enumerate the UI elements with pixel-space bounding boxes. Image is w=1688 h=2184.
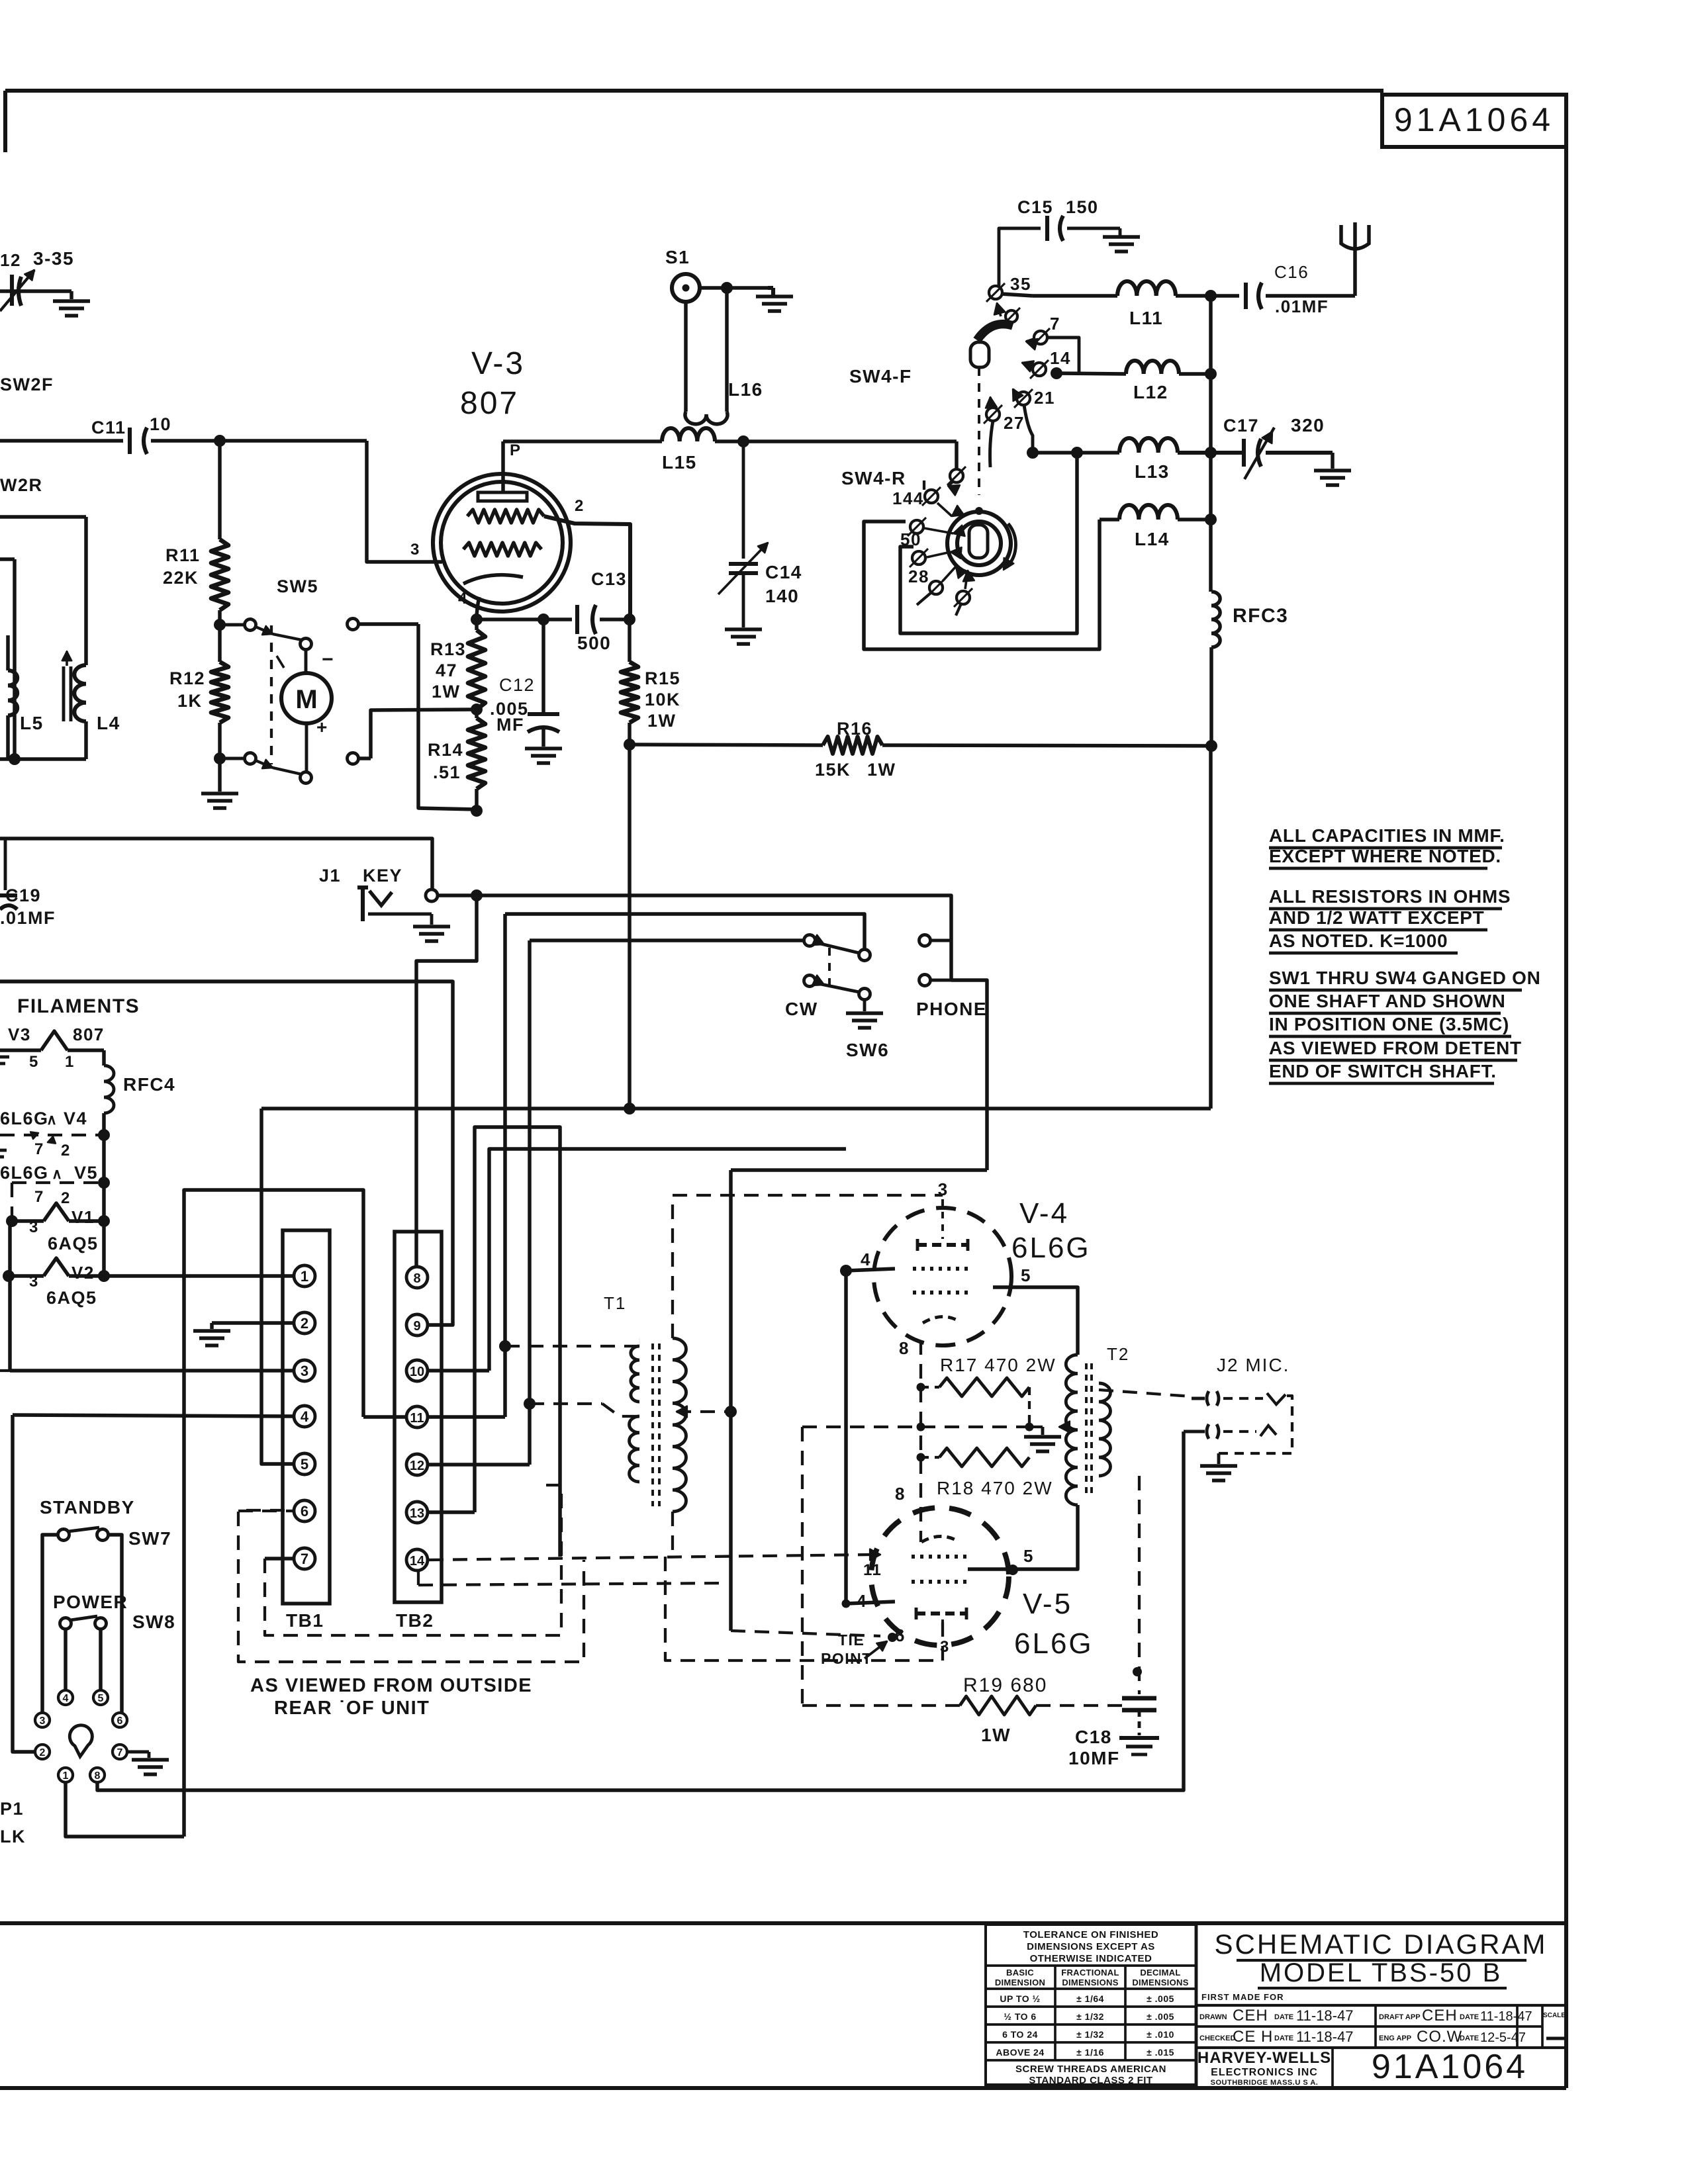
svg-text:6: 6 bbox=[895, 1625, 906, 1645]
svg-text:7: 7 bbox=[301, 1551, 308, 1567]
svg-text:SW1 THRU SW4 GANGED ON: SW1 THRU SW4 GANGED ON bbox=[1269, 968, 1541, 988]
svg-text:V-5: V-5 bbox=[1023, 1588, 1072, 1620]
svg-text:± 1/64: ± 1/64 bbox=[1076, 1993, 1104, 2004]
svg-text:½ TO 6: ½ TO 6 bbox=[1004, 2011, 1036, 2022]
svg-text:2: 2 bbox=[301, 1315, 308, 1332]
svg-text:CEH: CEH bbox=[1422, 2007, 1458, 2025]
svg-text:22K: 22K bbox=[163, 568, 199, 588]
svg-text:SCALE: SCALE bbox=[1543, 2012, 1566, 2019]
svg-text:V1: V1 bbox=[71, 1207, 95, 1227]
svg-text:8: 8 bbox=[895, 1484, 906, 1504]
svg-text:35: 35 bbox=[1010, 274, 1031, 294]
svg-text:DATE: DATE bbox=[1460, 2013, 1479, 2021]
svg-text:3: 3 bbox=[40, 1715, 46, 1727]
svg-text:11-18-47: 11-18-47 bbox=[1480, 2009, 1532, 2024]
svg-text:CHECKED: CHECKED bbox=[1199, 2034, 1235, 2042]
svg-text:M: M bbox=[295, 685, 317, 714]
svg-text:REAR ˙OF UNIT: REAR ˙OF UNIT bbox=[274, 1698, 430, 1719]
svg-text:14: 14 bbox=[410, 1554, 425, 1569]
svg-text:± .010: ± .010 bbox=[1147, 2029, 1174, 2040]
svg-text:5: 5 bbox=[29, 1053, 39, 1071]
svg-text:R19 680: R19 680 bbox=[963, 1674, 1047, 1696]
svg-text:L15: L15 bbox=[662, 452, 697, 473]
svg-text:3: 3 bbox=[29, 1273, 39, 1291]
svg-text:DIMENSIONS: DIMENSIONS bbox=[1132, 1978, 1188, 1987]
svg-text:DATE: DATE bbox=[1274, 2013, 1293, 2021]
svg-text:L12: L12 bbox=[1133, 382, 1168, 402]
svg-text:± .005: ± .005 bbox=[1147, 1993, 1174, 2004]
svg-text:13: 13 bbox=[410, 1506, 424, 1521]
svg-text:V-3: V-3 bbox=[471, 346, 525, 381]
svg-text:1W: 1W bbox=[867, 760, 896, 780]
svg-text:ABOVE 24: ABOVE 24 bbox=[996, 2047, 1044, 2058]
svg-text:DATE: DATE bbox=[1460, 2034, 1479, 2042]
svg-text:DIMENSION: DIMENSION bbox=[995, 1978, 1045, 1987]
svg-text:7: 7 bbox=[34, 1140, 44, 1158]
svg-text:8: 8 bbox=[899, 1338, 910, 1358]
svg-text:4: 4 bbox=[861, 1250, 871, 1269]
svg-text:C18: C18 bbox=[1075, 1727, 1112, 1747]
svg-text:3: 3 bbox=[410, 541, 420, 559]
svg-text:ALL CAPACITIES IN MMF.: ALL CAPACITIES IN MMF. bbox=[1269, 825, 1505, 846]
svg-text:TB1: TB1 bbox=[286, 1610, 324, 1631]
svg-text:± 1/16: ± 1/16 bbox=[1076, 2047, 1104, 2058]
svg-text:27: 27 bbox=[1004, 413, 1025, 433]
svg-text:EXCEPT WHERE NOTED.: EXCEPT WHERE NOTED. bbox=[1269, 846, 1501, 866]
svg-text:IN POSITION ONE (3.5MC): IN POSITION ONE (3.5MC) bbox=[1269, 1014, 1509, 1034]
svg-text:21: 21 bbox=[1034, 388, 1055, 408]
svg-text:1: 1 bbox=[301, 1268, 308, 1285]
svg-text:SCREW THREADS AMERICAN: SCREW THREADS AMERICAN bbox=[1015, 2064, 1166, 2075]
svg-text:1W: 1W bbox=[432, 682, 461, 702]
svg-text:DATE: DATE bbox=[1274, 2034, 1293, 2042]
svg-text:7: 7 bbox=[1050, 314, 1060, 334]
svg-text:DRAWN: DRAWN bbox=[1199, 2013, 1227, 2021]
svg-text:R17 470 2W: R17 470 2W bbox=[940, 1355, 1056, 1375]
svg-text:500: 500 bbox=[577, 633, 611, 653]
svg-text:L4: L4 bbox=[97, 713, 120, 733]
svg-text:R18 470 2W: R18 470 2W bbox=[937, 1478, 1053, 1498]
svg-text:3: 3 bbox=[940, 1638, 950, 1656]
svg-text:SW2F: SW2F bbox=[0, 375, 54, 394]
svg-text:J2 MIC.: J2 MIC. bbox=[1217, 1355, 1289, 1375]
svg-text:TB2: TB2 bbox=[396, 1610, 434, 1631]
svg-text:S1: S1 bbox=[665, 247, 690, 267]
svg-text:11: 11 bbox=[410, 1411, 424, 1426]
svg-text:1: 1 bbox=[65, 1053, 75, 1071]
svg-text:10K: 10K bbox=[645, 690, 680, 709]
svg-text:2: 2 bbox=[575, 497, 585, 515]
svg-text:PHONE: PHONE bbox=[916, 999, 987, 1019]
svg-text:91A1064: 91A1064 bbox=[1372, 2048, 1528, 2086]
svg-text:AS VIEWED FROM OUTSIDE: AS VIEWED FROM OUTSIDE bbox=[250, 1675, 532, 1696]
svg-text:R15: R15 bbox=[645, 668, 680, 688]
svg-text:6L6G: 6L6G bbox=[0, 1163, 49, 1183]
svg-text:807: 807 bbox=[460, 386, 519, 421]
svg-text:.01MF: .01MF bbox=[0, 908, 56, 928]
svg-text:4: 4 bbox=[63, 1693, 69, 1704]
svg-text:C14: C14 bbox=[765, 562, 802, 582]
svg-text:SW7: SW7 bbox=[128, 1528, 171, 1549]
svg-text:11-18-47: 11-18-47 bbox=[1296, 2028, 1353, 2045]
svg-text:6: 6 bbox=[117, 1715, 123, 1727]
svg-text:CE H: CE H bbox=[1233, 2028, 1273, 2046]
svg-text:3: 3 bbox=[29, 1218, 39, 1236]
svg-text:CO.W: CO.W bbox=[1417, 2028, 1462, 2046]
svg-text:SW5: SW5 bbox=[277, 576, 318, 596]
svg-text:CW: CW bbox=[785, 999, 818, 1019]
svg-text:RFC3: RFC3 bbox=[1233, 605, 1288, 627]
svg-text:± 1/32: ± 1/32 bbox=[1076, 2029, 1104, 2040]
svg-text:320: 320 bbox=[1291, 415, 1325, 435]
svg-text:28: 28 bbox=[908, 567, 929, 586]
svg-text:P1: P1 bbox=[0, 1799, 24, 1819]
svg-text:7: 7 bbox=[34, 1188, 44, 1206]
svg-text:C15: C15 bbox=[1017, 197, 1053, 217]
svg-text:+: + bbox=[316, 717, 328, 737]
svg-text:UP TO ½: UP TO ½ bbox=[1000, 1993, 1040, 2004]
svg-text:OTHERWISE INDICATED: OTHERWISE INDICATED bbox=[1030, 1953, 1152, 1964]
svg-text:3-35: 3-35 bbox=[33, 248, 74, 269]
svg-text:± 1/32: ± 1/32 bbox=[1076, 2011, 1104, 2022]
svg-text:7: 7 bbox=[117, 1747, 123, 1758]
svg-text:END OF SWITCH SHAFT.: END OF SWITCH SHAFT. bbox=[1269, 1061, 1497, 1081]
svg-text:SW4-F: SW4-F bbox=[849, 366, 912, 387]
svg-text:∧: ∧ bbox=[52, 1165, 64, 1182]
svg-text:2: 2 bbox=[61, 1189, 71, 1207]
svg-text:MF: MF bbox=[496, 715, 524, 735]
svg-text:TOLERANCE ON FINISHED: TOLERANCE ON FINISHED bbox=[1023, 1929, 1158, 1940]
svg-text:9: 9 bbox=[413, 1319, 420, 1334]
svg-text:10MF: 10MF bbox=[1068, 1748, 1120, 1768]
svg-text:± .005: ± .005 bbox=[1147, 2011, 1174, 2022]
svg-text:6AQ5: 6AQ5 bbox=[46, 1288, 97, 1308]
svg-text:4: 4 bbox=[458, 590, 468, 608]
svg-text:T1: T1 bbox=[604, 1293, 626, 1313]
svg-text:MODEL TBS-50 B: MODEL TBS-50 B bbox=[1260, 1958, 1503, 1987]
svg-text:807: 807 bbox=[73, 1024, 105, 1044]
svg-text:C13: C13 bbox=[591, 569, 627, 589]
svg-text:R14: R14 bbox=[428, 740, 463, 760]
svg-text:STANDARD CLASS 2 FIT: STANDARD CLASS 2 FIT bbox=[1029, 2075, 1152, 2086]
svg-text:140: 140 bbox=[765, 586, 799, 606]
svg-text:91A1064: 91A1064 bbox=[1394, 101, 1554, 138]
svg-text:6: 6 bbox=[301, 1503, 308, 1520]
svg-text:6 TO 24: 6 TO 24 bbox=[1002, 2029, 1038, 2040]
svg-text:C16: C16 bbox=[1274, 262, 1309, 282]
svg-text:4: 4 bbox=[301, 1408, 309, 1425]
svg-text:5: 5 bbox=[98, 1693, 104, 1704]
svg-text:8: 8 bbox=[95, 1770, 101, 1782]
svg-text:3: 3 bbox=[301, 1363, 308, 1379]
svg-text:ONE SHAFT AND SHOWN: ONE SHAFT AND SHOWN bbox=[1269, 991, 1506, 1011]
svg-text:STANDBY: STANDBY bbox=[40, 1497, 135, 1518]
svg-text:LK: LK bbox=[0, 1827, 26, 1846]
svg-text:12-5-47: 12-5-47 bbox=[1480, 2030, 1526, 2045]
svg-text:J1: J1 bbox=[319, 866, 341, 886]
svg-text:5: 5 bbox=[301, 1456, 308, 1473]
svg-text:SW6: SW6 bbox=[846, 1040, 889, 1060]
svg-text:150: 150 bbox=[1066, 197, 1099, 217]
svg-text:HARVEY-WELLS: HARVEY-WELLS bbox=[1197, 2049, 1331, 2067]
svg-text:ELECTRONICS INC: ELECTRONICS INC bbox=[1211, 2067, 1318, 2078]
svg-text:R12: R12 bbox=[169, 668, 205, 688]
svg-text:1: 1 bbox=[63, 1770, 69, 1782]
svg-text:14: 14 bbox=[1050, 348, 1071, 368]
svg-text:FILAMENTS: FILAMENTS bbox=[17, 995, 140, 1017]
svg-text:1K: 1K bbox=[177, 691, 203, 711]
svg-text:V2: V2 bbox=[71, 1263, 95, 1283]
svg-text:FIRST MADE FOR: FIRST MADE FOR bbox=[1201, 1992, 1284, 2002]
svg-text:V-4: V-4 bbox=[1019, 1197, 1069, 1230]
svg-text:C11: C11 bbox=[91, 418, 126, 437]
svg-text:POWER: POWER bbox=[53, 1592, 128, 1612]
svg-text:47: 47 bbox=[436, 660, 457, 680]
svg-text:ALL RESISTORS IN OHMS: ALL RESISTORS IN OHMS bbox=[1269, 886, 1511, 907]
svg-text:8: 8 bbox=[413, 1271, 420, 1286]
svg-text:6L6G: 6L6G bbox=[1011, 1232, 1091, 1264]
svg-text:12: 12 bbox=[0, 250, 21, 270]
svg-text:12: 12 bbox=[410, 1459, 424, 1473]
svg-text:TIE: TIE bbox=[838, 1631, 865, 1649]
svg-text:SW4-R: SW4-R bbox=[841, 468, 906, 488]
svg-text:AS VIEWED FROM DETENT: AS VIEWED FROM DETENT bbox=[1269, 1038, 1522, 1058]
svg-text:2: 2 bbox=[40, 1747, 46, 1758]
svg-text:AND 1/2 WATT EXCEPT: AND 1/2 WATT EXCEPT bbox=[1269, 907, 1484, 928]
svg-text:V3: V3 bbox=[8, 1024, 31, 1044]
svg-text:CEH: CEH bbox=[1233, 2007, 1268, 2025]
svg-text:4: 4 bbox=[857, 1591, 867, 1611]
svg-text:RFC4: RFC4 bbox=[123, 1074, 175, 1095]
svg-text:11: 11 bbox=[863, 1561, 882, 1579]
svg-text:T2: T2 bbox=[1107, 1344, 1129, 1364]
svg-text:L5: L5 bbox=[20, 713, 44, 733]
svg-text:KEY: KEY bbox=[363, 866, 402, 886]
svg-text:10: 10 bbox=[410, 1365, 424, 1379]
svg-text:R11: R11 bbox=[165, 545, 201, 565]
svg-text:L13: L13 bbox=[1135, 461, 1170, 482]
svg-text:.51: .51 bbox=[433, 762, 461, 782]
svg-text:11-18-47: 11-18-47 bbox=[1296, 2007, 1353, 2024]
svg-text:V5: V5 bbox=[74, 1163, 98, 1183]
svg-text:FRACTIONAL: FRACTIONAL bbox=[1061, 1968, 1119, 1978]
svg-text:P: P bbox=[510, 441, 522, 459]
svg-text:R13: R13 bbox=[430, 639, 466, 659]
svg-text:6AQ5: 6AQ5 bbox=[48, 1234, 99, 1253]
svg-text:V4: V4 bbox=[64, 1109, 87, 1128]
svg-text:SOUTHBRIDGE MASS.U S A.: SOUTHBRIDGE MASS.U S A. bbox=[1211, 2079, 1319, 2087]
svg-text:DECIMAL: DECIMAL bbox=[1140, 1968, 1180, 1978]
svg-text:5: 5 bbox=[1021, 1265, 1031, 1285]
svg-text:6L6G: 6L6G bbox=[1014, 1627, 1094, 1660]
svg-text:L14: L14 bbox=[1135, 529, 1170, 549]
svg-text:144: 144 bbox=[892, 488, 924, 508]
svg-text:AS NOTED. K=1000: AS NOTED. K=1000 bbox=[1269, 931, 1448, 951]
svg-text:∧: ∧ bbox=[46, 1111, 58, 1128]
svg-text:± .015: ± .015 bbox=[1147, 2047, 1174, 2058]
svg-text:SW8: SW8 bbox=[132, 1612, 175, 1632]
svg-text:DIMENSIONS EXCEPT AS: DIMENSIONS EXCEPT AS bbox=[1027, 1941, 1155, 1952]
svg-text:C12: C12 bbox=[499, 675, 535, 695]
svg-text:DIMENSIONS: DIMENSIONS bbox=[1062, 1978, 1118, 1987]
svg-text:10: 10 bbox=[150, 414, 171, 434]
svg-text:W2R: W2R bbox=[0, 475, 43, 495]
svg-text:ENG APP: ENG APP bbox=[1379, 2034, 1411, 2042]
svg-text:L11: L11 bbox=[1129, 308, 1163, 328]
svg-text:5: 5 bbox=[1023, 1546, 1034, 1566]
svg-text:.01MF: .01MF bbox=[1275, 296, 1329, 316]
svg-text:6L6G: 6L6G bbox=[0, 1109, 49, 1128]
svg-text:15K: 15K bbox=[815, 760, 851, 780]
svg-text:1W: 1W bbox=[647, 711, 677, 731]
svg-text:SCHEMATIC DIAGRAM: SCHEMATIC DIAGRAM bbox=[1215, 1929, 1548, 1960]
svg-text:L16: L16 bbox=[728, 379, 763, 400]
svg-text:DRAFT APP: DRAFT APP bbox=[1379, 2013, 1421, 2021]
svg-text:C17: C17 bbox=[1223, 416, 1259, 435]
svg-text:1W: 1W bbox=[981, 1725, 1011, 1745]
svg-text:−: − bbox=[322, 649, 334, 670]
svg-text:2: 2 bbox=[61, 1142, 71, 1160]
svg-text:BASIC: BASIC bbox=[1006, 1968, 1034, 1978]
